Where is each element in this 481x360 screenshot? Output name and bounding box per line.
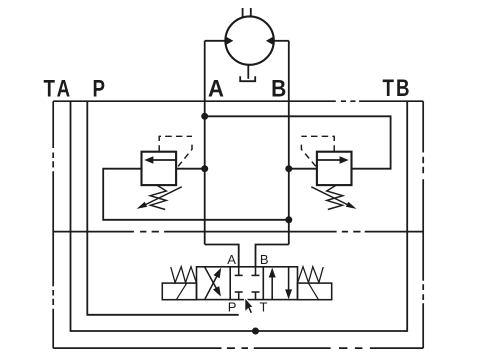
wire line A vertical: [204, 41, 206, 245]
DV1 left solenoid box: [162, 283, 196, 300]
DV1 left cell crossed arrow P-to-B: [205, 275, 218, 299]
relief valve V2 pilot line (dashed): [301, 136, 334, 151]
hydraulic motor M1 body: [225, 16, 273, 64]
wire V2 outlet loop to node A: [205, 116, 391, 168]
manifold enclosure left edge (chain line): [52, 101, 54, 348]
DV1 center cell port T stub (blocked): [255, 292, 257, 299]
motor left triangle: [225, 36, 233, 45]
svg-text:TB: TB: [383, 75, 412, 102]
DV1 right cell arrow P-to-A (up): [271, 273, 273, 300]
svg-text:P: P: [228, 300, 237, 315]
svg-text:P: P: [93, 75, 105, 102]
relief valve V1 spring: [150, 185, 166, 209]
DV1 left cell crossed arrow A-to-T: [205, 267, 217, 289]
manifold enclosure bottom edge (chain line): [53, 347, 423, 349]
svg-text:TA: TA: [44, 75, 74, 102]
svg-text:A: A: [208, 76, 224, 103]
label B (motor line): [271, 76, 286, 103]
DV1 right return spring: [298, 267, 324, 283]
wire motor left port to node A: [205, 40, 226, 42]
svg-text:T: T: [260, 299, 268, 314]
drain tank symbol: [240, 76, 255, 81]
wire line A jog to valve port: [205, 245, 239, 267]
DV1 left return spring: [171, 267, 197, 283]
relief valve V1 adjust arrow: [143, 187, 182, 206]
relief valve V2 adjust arrow: [311, 187, 350, 206]
motor right triangle: [266, 36, 274, 45]
wire V1 inlet from node A: [177, 168, 205, 170]
DV1 center cell port P stub (blocked): [238, 292, 240, 299]
section divider line (chain line): [53, 231, 423, 233]
port line TA: [71, 101, 256, 331]
junction node A x V1 inlet: [201, 165, 208, 172]
relief valve V2 box: [317, 152, 352, 185]
wire motor right port to node B: [274, 40, 289, 42]
relief valve V2 arrow: [317, 159, 343, 161]
relief valve V1 arrow: [151, 159, 177, 161]
junction node A x V2 return: [201, 113, 208, 120]
DV1 right solenoid box: [298, 283, 332, 300]
label TB: [383, 75, 412, 102]
DV1 left solenoid slash: [176, 283, 186, 300]
DV1 center cell port B stub (blocked): [255, 267, 257, 275]
manifold enclosure right edge (chain line): [422, 101, 424, 348]
port line P: [87, 101, 238, 315]
relief valve V1 box: [142, 152, 177, 185]
junction node B x V1 return: [285, 216, 292, 223]
svg-text:A: A: [227, 252, 236, 267]
directional valve DV1 body: [197, 267, 298, 300]
label A (motor line): [208, 76, 224, 103]
DV1 right cell arrow B-to-T (down): [288, 267, 290, 294]
port line TB: [256, 101, 408, 331]
junction node T: [252, 328, 259, 335]
relief valve V1 pilot line (dashed): [159, 136, 192, 151]
wire line B vertical: [288, 41, 290, 245]
wire V1 outlet loop to node B: [103, 169, 289, 220]
wire line B jog to valve port: [256, 245, 289, 267]
label P (port): [93, 75, 105, 102]
motor shaft: [242, 8, 244, 18]
junction node B x V2 inlet: [285, 165, 292, 172]
relief valve V2 spring: [327, 185, 343, 209]
motor case drain line: [247, 65, 249, 79]
mouse cursor: [245, 297, 254, 314]
label TA: [44, 75, 74, 102]
manifold enclosure top edge: [53, 100, 423, 102]
wire V2 inlet from node B: [289, 168, 317, 170]
DV1 right solenoid slash: [309, 283, 319, 300]
DV1 center cell port A stub (blocked): [238, 267, 240, 275]
svg-text:B: B: [271, 76, 286, 103]
DV1 cell divider right: [262, 267, 264, 300]
DV1 cell divider left: [229, 267, 231, 300]
svg-text:B: B: [260, 252, 269, 267]
